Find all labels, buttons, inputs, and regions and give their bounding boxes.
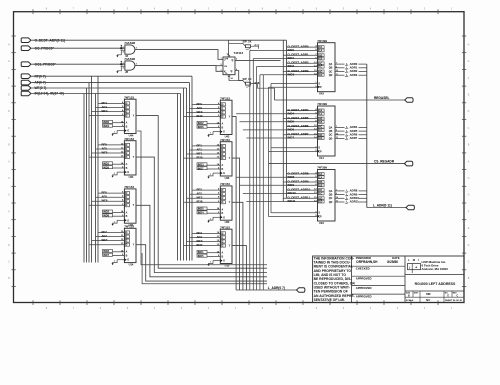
svg-text:I1A: I1A bbox=[319, 113, 323, 116]
svg-text:74F112: 74F112 bbox=[234, 51, 244, 55]
svg-text:8/25/86: 8/25/86 bbox=[387, 260, 398, 264]
svg-text:L M I: L M I bbox=[408, 258, 420, 262]
svg-text:IND3: IND3 bbox=[288, 72, 295, 76]
wire register clock and select lines bbox=[269, 212, 318, 218]
svg-text:74F399: 74F399 bbox=[317, 166, 327, 170]
wire register U43 outputs L_ADR0-3 bbox=[335, 62, 367, 77]
wire enable stub with tie-down bbox=[207, 132, 220, 137]
wire data input stubs bbox=[89, 142, 124, 157]
svg-text:WF6: WF6 bbox=[102, 199, 108, 203]
title block (drawing information) bbox=[313, 256, 464, 303]
svg-text:U14: U14 bbox=[129, 262, 134, 266]
svg-text:D: D bbox=[8, 110, 10, 113]
svg-text:IND3: IND3 bbox=[103, 249, 109, 253]
svg-text:G: G bbox=[8, 194, 10, 197]
svg-text:IND11: IND11 bbox=[288, 199, 296, 203]
svg-text:CP: CP bbox=[318, 216, 322, 218]
svg-text:H: H bbox=[468, 43, 470, 46]
svg-text:CK: CK bbox=[224, 66, 228, 68]
svg-text:G: G bbox=[223, 131, 225, 134]
register U14 74F399 bbox=[317, 102, 335, 160]
svg-text:QC: QC bbox=[329, 70, 333, 73]
svg-text:74F153: 74F153 bbox=[124, 137, 134, 141]
svg-text:74F153: 74F153 bbox=[220, 96, 230, 100]
resistor R17 SIP_1K pull-up (top) bbox=[229, 39, 260, 50]
wire GC_PROC0* to gate U45a bbox=[32, 47, 125, 49]
and-gate U45a 74AS08 bbox=[116, 41, 137, 58]
svg-text:IND2: IND2 bbox=[103, 210, 109, 214]
svg-text:C: C bbox=[468, 127, 470, 130]
svg-text:A: A bbox=[222, 164, 224, 167]
svg-text:L_ADR11: L_ADR11 bbox=[346, 200, 359, 204]
svg-text:QA: QA bbox=[329, 126, 333, 129]
svg-text:C: C bbox=[468, 261, 470, 264]
svg-text:2B: 2B bbox=[125, 72, 128, 74]
svg-text:IR38: IR38 bbox=[197, 200, 203, 204]
wire enable stub with tie-down bbox=[207, 173, 220, 178]
svg-text:QC: QC bbox=[329, 197, 333, 200]
wire U46 Q output bbox=[235, 59, 281, 61]
wire data input stubs bbox=[184, 102, 221, 118]
svg-text:IND2: IND2 bbox=[288, 64, 295, 68]
svg-text:I1B: I1B bbox=[319, 184, 323, 187]
svg-text:I1D: I1D bbox=[319, 201, 323, 204]
svg-text:D: D bbox=[8, 244, 10, 247]
node GC1_PROC0* input connector bbox=[21, 62, 56, 67]
wire mux U23 output Y bbox=[232, 202, 243, 290]
svg-text:A: A bbox=[126, 211, 128, 214]
node WF(0-7) input connector bbox=[21, 86, 46, 91]
svg-text:G: G bbox=[223, 216, 225, 219]
wire data input stubs bbox=[89, 191, 124, 206]
svg-text:REF: REF bbox=[426, 293, 431, 296]
mux U34 74F153 bbox=[124, 137, 136, 179]
wire mux U13 output Y bbox=[232, 246, 246, 290]
wire enable stub with tie-down bbox=[207, 217, 220, 222]
svg-text:74F153: 74F153 bbox=[124, 95, 134, 99]
svg-text:SIP_1K: SIP_1K bbox=[243, 39, 252, 43]
wire IND nets vertical runs to bottom bus bbox=[250, 50, 263, 290]
wire column-1 long vertical net bbox=[137, 131, 267, 265]
node IND select labels bbox=[197, 163, 220, 171]
svg-text:IND7: IND7 bbox=[288, 136, 295, 140]
svg-text:IND1: IND1 bbox=[103, 162, 109, 166]
svg-text:Q: Q bbox=[231, 70, 233, 73]
node IND select labels bbox=[197, 207, 220, 215]
svg-text:B: B bbox=[126, 167, 128, 170]
svg-text:B: B bbox=[222, 212, 224, 215]
svg-text:IND6: IND6 bbox=[103, 214, 109, 218]
svg-text:QB: QB bbox=[329, 194, 333, 197]
svg-text:74F153: 74F153 bbox=[220, 182, 230, 186]
wire O_DEST_ADR bus horizontal bbox=[32, 39, 287, 41]
register U23 74F399 bbox=[317, 166, 335, 225]
wire bottom bus gather to L_ADR(0-7) bbox=[236, 289, 296, 291]
wire register clock and select lines bbox=[269, 82, 318, 88]
svg-text:G: G bbox=[468, 194, 470, 197]
node L_ADR(0-11) output connector bbox=[367, 207, 406, 209]
svg-text:SIP_1K: SIP_1K bbox=[243, 77, 252, 81]
wire enable stub with tie-down bbox=[207, 261, 220, 266]
svg-text:IND0: IND0 bbox=[103, 120, 109, 124]
svg-text:I1D: I1D bbox=[319, 74, 323, 77]
svg-text:U33: U33 bbox=[225, 176, 230, 180]
wire left vertical bus drops to column-1 muxes bbox=[84, 76, 98, 262]
svg-text:APPROVED: APPROVED bbox=[356, 277, 372, 281]
svg-text:IR40: IR40 bbox=[197, 114, 203, 118]
svg-text:IND10: IND10 bbox=[288, 191, 297, 195]
svg-text:B: B bbox=[126, 125, 128, 128]
svg-text:QD: QD bbox=[329, 201, 333, 204]
svg-text:IND5: IND5 bbox=[103, 165, 109, 169]
svg-text:C: C bbox=[8, 261, 10, 264]
wire data input stubs bbox=[184, 143, 221, 159]
svg-text:REGASEL: REGASEL bbox=[374, 96, 389, 100]
svg-text:G: G bbox=[127, 130, 129, 133]
svg-text:L_ADR(0 11): L_ADR(0 11) bbox=[373, 203, 392, 207]
svg-text:74AS08: 74AS08 bbox=[124, 41, 135, 45]
svg-text:I1C: I1C bbox=[319, 193, 323, 196]
wire U46 Q-bar to pull-up rail bbox=[235, 71, 243, 81]
wire RF bus horizontal bbox=[32, 75, 192, 77]
svg-text:QD: QD bbox=[329, 74, 333, 77]
mux U33 74F153 bbox=[220, 138, 232, 180]
node AF(0-7) input connector bbox=[21, 80, 45, 85]
svg-text:74F153: 74F153 bbox=[220, 138, 230, 142]
svg-text:U34: U34 bbox=[129, 175, 134, 179]
resistor R18 SIP_1K pull-up (bottom) bbox=[229, 77, 275, 88]
svg-text:G: G bbox=[468, 60, 470, 63]
svg-text:A: A bbox=[222, 123, 224, 126]
svg-text:SIZE: SIZE bbox=[406, 292, 411, 294]
svg-text:APPROVED: APPROVED bbox=[356, 295, 372, 299]
svg-text:74F153: 74F153 bbox=[124, 224, 134, 228]
svg-text:L_ADR(0 7): L_ADR(0 7) bbox=[268, 286, 285, 290]
mux U43 74F153 bbox=[220, 96, 232, 138]
node O_DEST_ADR(0-11) input connector bbox=[21, 38, 65, 43]
svg-text:IND0: IND0 bbox=[198, 207, 204, 211]
svg-text:B: B bbox=[126, 215, 128, 218]
wire mux U44 output Y bbox=[136, 116, 267, 269]
svg-text:WF4: WF4 bbox=[102, 109, 108, 113]
svg-text:CHECKED: CHECKED bbox=[356, 267, 370, 271]
svg-text:DRFRAHN,SH: DRFRAHN,SH bbox=[356, 260, 378, 264]
node GC_PROC0* input connector bbox=[21, 46, 54, 51]
svg-text:74AS08: 74AS08 bbox=[124, 57, 135, 61]
wire enable stub with tie-down bbox=[112, 131, 125, 136]
svg-text:WF5: WF5 bbox=[102, 150, 108, 154]
wire L_ADR bus vertical gather bbox=[366, 64, 368, 207]
wire O_DEST_ADR bus vertical pair bbox=[283, 40, 286, 201]
wire mux U24 output Y bbox=[136, 205, 267, 276]
svg-text:NO.: NO. bbox=[445, 292, 449, 294]
svg-text:QC: QC bbox=[329, 134, 333, 137]
svg-text:+: + bbox=[415, 266, 417, 270]
svg-text:B: B bbox=[126, 255, 128, 258]
svg-text:QD: QD bbox=[329, 137, 333, 140]
svg-text:IND1: IND1 bbox=[288, 56, 295, 60]
svg-text:B: B bbox=[222, 168, 224, 171]
node IND select labels bbox=[103, 120, 125, 128]
svg-text:U23: U23 bbox=[225, 220, 230, 224]
svg-text:IND4: IND4 bbox=[103, 124, 109, 128]
register U43 74F399 bbox=[317, 39, 335, 96]
svg-text:N/A: N/A bbox=[426, 299, 430, 302]
wire WF bus horizontal bbox=[32, 87, 187, 89]
svg-text:IND1: IND1 bbox=[198, 250, 204, 254]
svg-text:U23: U23 bbox=[319, 221, 324, 225]
svg-text:H: H bbox=[468, 177, 470, 180]
wire mux U14 output Y bbox=[136, 245, 267, 281]
svg-text:IND4: IND4 bbox=[288, 111, 295, 115]
wire register input stubs O_DEST/IND bbox=[236, 171, 317, 203]
node REGASEL output connector bbox=[275, 99, 405, 101]
svg-text:74F399: 74F399 bbox=[317, 39, 327, 43]
wire middle vertical bus drops to column-2 muxes bbox=[178, 76, 193, 260]
wire IR bus horizontal bbox=[32, 93, 181, 95]
wire gate U45b output to U46 CK/K inputs bbox=[135, 66, 223, 72]
svg-text:SCALE: SCALE bbox=[406, 299, 414, 302]
svg-text:1: 1 bbox=[220, 58, 221, 60]
wire enable stub with tie-down bbox=[112, 220, 125, 225]
svg-text:74F153: 74F153 bbox=[124, 185, 134, 189]
svg-text:U14: U14 bbox=[319, 156, 324, 160]
svg-text:CP: CP bbox=[318, 151, 322, 153]
svg-text:B: B bbox=[222, 126, 224, 129]
svg-text:CP: CP bbox=[318, 87, 322, 89]
svg-text:G: G bbox=[127, 259, 129, 262]
mux U44 74F153 bbox=[124, 95, 136, 137]
node IND select labels bbox=[197, 121, 220, 129]
svg-text:Andover, MA 01810: Andover, MA 01810 bbox=[422, 267, 449, 271]
svg-text:C: C bbox=[8, 127, 10, 130]
and-gate U45b 74AS08 bbox=[116, 57, 137, 74]
svg-text:A: A bbox=[126, 163, 128, 166]
wire mux U34 output Y bbox=[136, 157, 267, 272]
svg-text:A: A bbox=[126, 251, 128, 254]
svg-text:A: A bbox=[126, 122, 128, 125]
svg-text:I1D: I1D bbox=[319, 137, 323, 140]
wire column-1 long vertical net 2 bbox=[142, 253, 267, 284]
svg-text:I1A: I1A bbox=[319, 176, 323, 179]
mux U14 74F153 bbox=[124, 224, 136, 266]
svg-text:QB: QB bbox=[329, 67, 333, 70]
svg-text:I1A: I1A bbox=[319, 50, 323, 53]
svg-text:U13: U13 bbox=[225, 263, 230, 267]
wire data input stubs bbox=[184, 188, 221, 204]
svg-text:IND3: IND3 bbox=[198, 163, 204, 167]
svg-text:|: | bbox=[409, 265, 410, 269]
wire mux U33 output Y bbox=[232, 158, 240, 290]
svg-text:SHEET 56 OF 41: SHEET 56 OF 41 bbox=[445, 299, 463, 302]
wire register U14 outputs L_ADR4-7 bbox=[335, 125, 367, 140]
svg-text:2: 2 bbox=[220, 64, 221, 66]
wire AF bus horizontal bbox=[32, 82, 190, 84]
node IND select labels bbox=[103, 210, 125, 218]
svg-text:I1B: I1B bbox=[319, 121, 323, 124]
svg-text:I1C: I1C bbox=[319, 66, 323, 69]
svg-text:H: H bbox=[8, 43, 10, 46]
svg-text:D: D bbox=[468, 244, 470, 247]
svg-text:I1C: I1C bbox=[319, 129, 323, 132]
wire enable stub with tie-down bbox=[112, 260, 125, 265]
mux U13 74F153 bbox=[220, 225, 232, 267]
svg-text:G: G bbox=[223, 172, 225, 175]
svg-text:APPROVED: APPROVED bbox=[356, 286, 372, 290]
svg-text:74F153: 74F153 bbox=[220, 225, 230, 229]
svg-text:D: D bbox=[468, 110, 470, 113]
wire data input stubs bbox=[184, 231, 221, 247]
svg-text:U43: U43 bbox=[319, 92, 324, 96]
node CS_REGADR output connector bbox=[269, 163, 405, 165]
node IR(10-04),IR(37-40) input connector bbox=[21, 91, 64, 96]
node IND select labels bbox=[103, 162, 125, 170]
wire register input stubs O_DEST/IND bbox=[236, 108, 317, 140]
svg-text:IND6: IND6 bbox=[198, 125, 204, 129]
svg-text:G: G bbox=[8, 60, 10, 63]
svg-text:IR39: IR39 bbox=[197, 156, 203, 160]
svg-text:RG4000 LEFT ADDRESS: RG4000 LEFT ADDRESS bbox=[415, 282, 456, 286]
svg-text:L_ADR3: L_ADR3 bbox=[346, 73, 357, 77]
svg-text:IR37: IR37 bbox=[197, 243, 203, 247]
wire clock distribution verticals bbox=[269, 84, 272, 217]
mux U24 74F153 bbox=[124, 185, 136, 227]
wire enable stub with tie-down bbox=[112, 172, 125, 177]
svg-text:SENTATIVE OF LMI.: SENTATIVE OF LMI. bbox=[314, 298, 346, 302]
svg-text:A: A bbox=[222, 252, 224, 255]
svg-text:L_ADR7: L_ADR7 bbox=[346, 136, 357, 140]
node RF(0-7) input connector bbox=[21, 74, 45, 79]
svg-text:IND0: IND0 bbox=[288, 48, 295, 52]
svg-text:QA: QA bbox=[329, 63, 333, 66]
wire gate U45a output to U46 J input bbox=[135, 50, 223, 60]
svg-text:CS_REGADR: CS_REGADR bbox=[374, 159, 395, 163]
svg-text:WF7: WF7 bbox=[102, 238, 108, 242]
flip-flop U46 74F112 bbox=[220, 40, 243, 80]
svg-text:IND4: IND4 bbox=[198, 211, 204, 215]
svg-text:Q: Q bbox=[232, 59, 234, 62]
wire data input stubs bbox=[89, 101, 124, 116]
wire register U23 outputs L_ADR8-11 bbox=[335, 189, 367, 204]
svg-text:74F399: 74F399 bbox=[317, 102, 327, 106]
wire GC1_PROC0* to gate U45b bbox=[32, 63, 125, 65]
svg-text:B: B bbox=[222, 255, 224, 258]
wire register clock and select lines bbox=[269, 147, 318, 153]
svg-text:QB: QB bbox=[329, 130, 333, 133]
mux U23 74F153 bbox=[220, 182, 232, 224]
svg-text:QA: QA bbox=[329, 190, 333, 193]
svg-text:G: G bbox=[127, 219, 129, 222]
wire mux U43 output Y bbox=[232, 117, 236, 290]
node L_ADR(0-7) output connector bbox=[268, 286, 305, 293]
svg-text:G: G bbox=[127, 171, 129, 174]
svg-text:A: A bbox=[222, 208, 224, 211]
svg-text:IND2: IND2 bbox=[198, 121, 204, 125]
svg-text:IND8: IND8 bbox=[288, 175, 295, 179]
wire data input stubs bbox=[89, 230, 124, 245]
wire register input stubs O_DEST/IND bbox=[250, 45, 318, 77]
svg-text:DWT.: DWT. bbox=[414, 292, 419, 294]
svg-text:IND5: IND5 bbox=[198, 254, 204, 258]
svg-text:I1B: I1B bbox=[319, 58, 323, 61]
svg-text:IND5: IND5 bbox=[288, 119, 295, 123]
svg-text:IND7: IND7 bbox=[103, 253, 109, 257]
wire pull-up rail down to REGASEL bbox=[274, 88, 276, 100]
svg-text:R17: R17 bbox=[255, 44, 260, 48]
svg-text:IND7: IND7 bbox=[198, 166, 204, 170]
node IND select labels bbox=[103, 249, 125, 257]
svg-text:IND6: IND6 bbox=[288, 128, 295, 132]
svg-text:G: G bbox=[223, 260, 225, 263]
svg-text:H: H bbox=[8, 177, 10, 180]
node IND select labels bbox=[197, 250, 220, 258]
svg-text:3: 3 bbox=[220, 70, 221, 72]
svg-text:IND9: IND9 bbox=[288, 183, 295, 187]
